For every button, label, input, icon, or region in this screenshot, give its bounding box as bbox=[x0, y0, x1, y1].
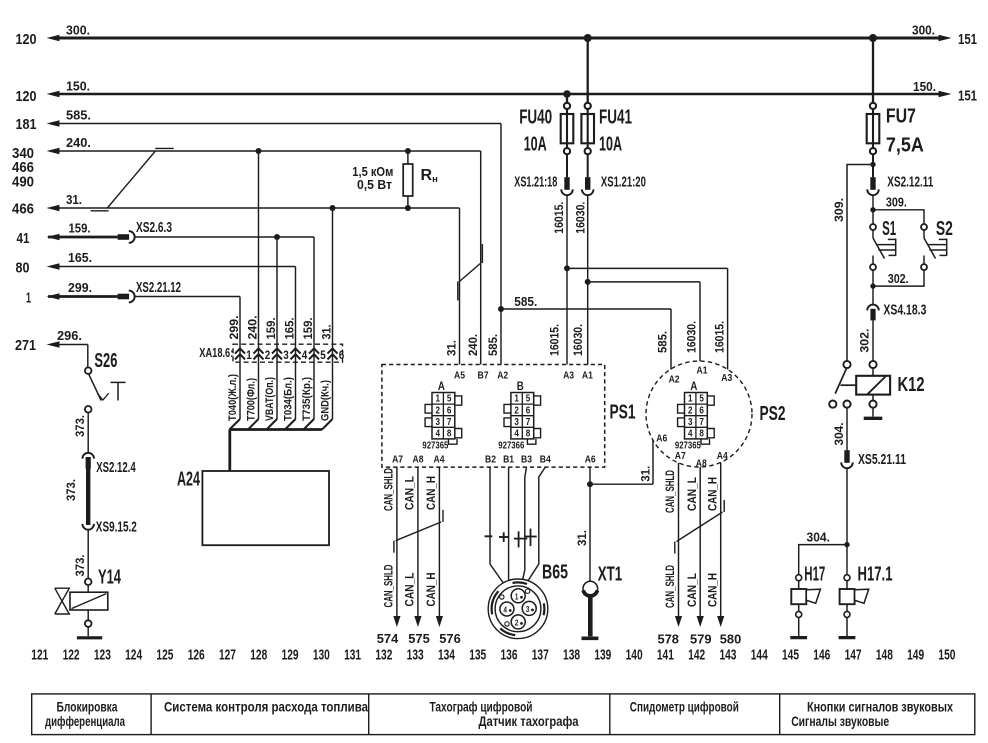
arrowhead right wire 150. bbox=[939, 91, 952, 98]
svg-text:GND(Кч.): GND(Кч.) bbox=[319, 380, 331, 421]
svg-text:927366: 927366 bbox=[498, 440, 524, 451]
svg-text:FU40: FU40 bbox=[519, 106, 552, 129]
connector XS1.21:20 symbol bbox=[585, 177, 590, 190]
connector XA18.6 pin 3 chevrons bbox=[272, 348, 282, 353]
svg-text:3: 3 bbox=[283, 348, 289, 362]
relay K12 coil box bbox=[856, 376, 890, 395]
switch S26 upper contact bbox=[85, 367, 92, 374]
sensor B65 pin 4 bbox=[500, 602, 514, 616]
svg-text:373.: 373. bbox=[73, 555, 87, 577]
svg-text:296.: 296. bbox=[57, 328, 82, 343]
svg-text:A6: A6 bbox=[585, 454, 596, 466]
svg-text:4: 4 bbox=[688, 429, 693, 440]
svg-text:121: 121 bbox=[31, 647, 48, 664]
svg-text:139: 139 bbox=[594, 647, 611, 664]
legend table divider 1 bbox=[150, 694, 152, 735]
terminal XT1 stem bbox=[588, 596, 593, 636]
wire 373. XS9.15.2 to Y14 bbox=[87, 530, 89, 579]
svg-text:240.: 240. bbox=[466, 334, 480, 356]
svg-text:6: 6 bbox=[339, 348, 345, 362]
connector XS4.18.3 symbol bbox=[867, 305, 879, 311]
wire FU7 drop from 300. bus bbox=[872, 38, 874, 103]
connector XS1.21:18 symbol bbox=[564, 177, 569, 190]
wire B4 from PS1 to B65 bbox=[527, 467, 546, 582]
svg-text:137: 137 bbox=[532, 647, 549, 664]
legend table divider 2 bbox=[368, 694, 370, 735]
svg-text:575: 575 bbox=[408, 631, 430, 646]
svg-text:159.: 159. bbox=[301, 318, 315, 340]
svg-text:A2: A2 bbox=[669, 374, 680, 386]
resistor Rн body bbox=[403, 164, 413, 196]
svg-text:16015.: 16015. bbox=[552, 202, 566, 234]
svg-text:5: 5 bbox=[699, 394, 704, 405]
svg-text:120: 120 bbox=[16, 88, 37, 105]
svg-text:CAN_SHLD: CAN_SHLD bbox=[381, 468, 395, 511]
connector XS2.12.11 symbol bbox=[870, 177, 875, 190]
svg-text:A: A bbox=[438, 381, 445, 393]
svg-text:373.: 373. bbox=[73, 415, 87, 437]
wire XA18.6 pin4 vertical (165.) bbox=[295, 267, 297, 420]
arrowhead left wire 165. bbox=[47, 263, 60, 270]
wire 165. horizontal bbox=[58, 266, 296, 268]
fuse FU40 terminal circles bbox=[564, 103, 570, 109]
svg-text:927365: 927365 bbox=[422, 440, 448, 451]
wire 304. relay to XS5.21.11 bbox=[846, 408, 848, 451]
wire 302. to relay K12 bbox=[872, 320, 874, 360]
wire 373. S26 to XS2.12.4 bbox=[87, 413, 89, 454]
arrowhead CAN_H (576) bbox=[436, 616, 443, 627]
connector XA18.6 pin 5 chevrons bbox=[309, 348, 319, 353]
horn H17 lower terminal bbox=[796, 611, 802, 617]
svg-text:300.: 300. bbox=[66, 23, 90, 38]
switch S1 blade bbox=[872, 230, 874, 238]
wire B1 (+) from PS1 to B65 bbox=[508, 467, 510, 583]
svg-text:150.: 150. bbox=[66, 79, 90, 94]
node 302. junction bbox=[870, 283, 875, 288]
shield pair symbol (B3/B4) bbox=[514, 538, 528, 540]
svg-text:300.: 300. bbox=[912, 23, 935, 38]
svg-text:150: 150 bbox=[938, 647, 955, 664]
svg-text:7: 7 bbox=[526, 417, 531, 428]
svg-text:A1: A1 bbox=[697, 365, 708, 377]
wire H17.1 to ground bbox=[846, 604, 848, 611]
switch S2 upper contact bbox=[921, 224, 927, 230]
svg-text:CAN_L: CAN_L bbox=[403, 476, 417, 510]
svg-text:2: 2 bbox=[515, 617, 519, 627]
wire 240. vertical drop to PS1 pin B7 bbox=[480, 151, 482, 365]
wire 299. horizontal bbox=[48, 295, 118, 298]
svg-text:A4: A4 bbox=[717, 450, 728, 462]
svg-text:574: 574 bbox=[377, 631, 399, 646]
svg-text:3: 3 bbox=[688, 417, 693, 428]
connector grid A bbox=[685, 393, 708, 439]
wire S1 lower to 302. junction bbox=[872, 270, 874, 286]
wire 150. main horizontal bus bbox=[58, 93, 940, 95]
svg-text:A8: A8 bbox=[413, 454, 424, 466]
svg-text:6: 6 bbox=[699, 405, 704, 416]
svg-text:Y14: Y14 bbox=[98, 566, 121, 589]
svg-text:B4: B4 bbox=[540, 454, 551, 466]
svg-text:136: 136 bbox=[501, 647, 518, 664]
legend table divider 3 bbox=[609, 694, 611, 735]
ground symbol Y14 bbox=[77, 636, 102, 639]
node branch to S2 bbox=[870, 207, 875, 212]
node resistor bottom on wire 31. bbox=[405, 205, 411, 211]
svg-text:2: 2 bbox=[265, 348, 271, 362]
svg-text:B2: B2 bbox=[485, 454, 496, 466]
svg-text:579: 579 bbox=[690, 632, 712, 647]
svg-text:145: 145 bbox=[782, 647, 799, 664]
svg-text:131: 131 bbox=[344, 647, 361, 664]
svg-text:Т735(Кр.): Т735(Кр.) bbox=[301, 377, 313, 421]
svg-text:Т034(Бл.): Т034(Бл.) bbox=[282, 377, 294, 421]
arrowhead left wire 300. bbox=[47, 35, 60, 42]
svg-text:XS1.21:18: XS1.21:18 bbox=[514, 175, 557, 191]
solenoid valve Y14 upper terminal bbox=[85, 579, 92, 586]
connector XS2.12.4 symbol bbox=[82, 453, 94, 459]
wire XA18.6 pin6 vertical (31.) bbox=[332, 208, 334, 419]
svg-text:16015.: 16015. bbox=[548, 324, 562, 356]
wire 31. from PS1 A6 down bbox=[589, 467, 591, 581]
svg-text:S26: S26 bbox=[94, 349, 117, 372]
svg-text:585.: 585. bbox=[514, 294, 537, 309]
ground symbol K12 bbox=[864, 417, 883, 420]
svg-text:A2: A2 bbox=[497, 370, 508, 382]
svg-text:5: 5 bbox=[447, 394, 452, 405]
node FU40 on wire 150. bbox=[563, 90, 571, 98]
device PS2 dashed circle bbox=[646, 361, 752, 467]
wire 31. horizontal bbox=[58, 207, 460, 209]
svg-text:XT1: XT1 bbox=[598, 563, 623, 586]
horn H17.1 lower terminal bbox=[844, 611, 850, 617]
switch S2 blade bbox=[923, 230, 925, 238]
arrowhead CAN_L (575) bbox=[414, 616, 421, 627]
svg-text:B3: B3 bbox=[521, 454, 532, 466]
svg-text:127: 127 bbox=[219, 647, 236, 664]
node resistor top on wire 240. bbox=[405, 148, 411, 154]
svg-text:240.: 240. bbox=[66, 135, 91, 150]
svg-text:CAN_SHLD: CAN_SHLD bbox=[663, 470, 677, 513]
svg-text:CAN_SHLD: CAN_SHLD bbox=[381, 564, 395, 607]
relay K12 lower contact terminals bbox=[829, 401, 836, 408]
wire from 240. line down through resistor to 31. line bbox=[407, 151, 409, 208]
label minus (B2) bbox=[485, 535, 493, 537]
svg-text:141: 141 bbox=[657, 647, 674, 664]
wire 16015. XS1.21:18 down to PS1 pin A3 bbox=[566, 195, 568, 364]
fuse FU41 terminal circles bbox=[585, 103, 591, 109]
svg-text:1: 1 bbox=[26, 289, 31, 306]
svg-text:16030.: 16030. bbox=[574, 202, 588, 234]
svg-text:148: 148 bbox=[876, 647, 893, 664]
solenoid valve Y14 lower terminal bbox=[85, 620, 92, 627]
wire 302. down to XS4.18.3 bbox=[872, 286, 874, 305]
svg-text:133: 133 bbox=[407, 647, 424, 664]
svg-text:2: 2 bbox=[688, 405, 693, 416]
svg-text:135: 135 bbox=[469, 647, 486, 664]
arrowhead CAN_H (580) bbox=[717, 616, 724, 627]
switch S2 lower contact bbox=[923, 256, 925, 265]
arrowhead left wire 240. bbox=[47, 148, 60, 155]
arrowhead left wire 150. bbox=[47, 91, 60, 98]
node pin2 junction on wire 240. bbox=[256, 148, 262, 154]
connector housing tabs B bbox=[504, 404, 511, 413]
svg-text:128: 128 bbox=[250, 647, 267, 664]
svg-text:3: 3 bbox=[435, 417, 440, 428]
svg-text:Система контроля расхода топли: Система контроля расхода топлива bbox=[164, 700, 368, 715]
connector grid B bbox=[511, 393, 534, 439]
svg-text:120: 120 bbox=[16, 31, 37, 48]
svg-text:10А: 10А bbox=[599, 133, 622, 156]
svg-text:H17.1: H17.1 bbox=[858, 563, 893, 586]
svg-text:4: 4 bbox=[514, 429, 519, 440]
svg-text:181: 181 bbox=[16, 116, 37, 133]
svg-text:4: 4 bbox=[504, 605, 508, 615]
svg-text:A3: A3 bbox=[721, 372, 732, 384]
svg-text:138: 138 bbox=[563, 647, 580, 664]
svg-text:132: 132 bbox=[375, 647, 392, 664]
svg-text:80: 80 bbox=[16, 260, 30, 277]
fuse FU7 terminal circles bbox=[870, 103, 876, 109]
svg-text:Блокировка: Блокировка bbox=[57, 700, 118, 715]
wire 304. down to horns bbox=[846, 468, 848, 574]
svg-text:146: 146 bbox=[813, 647, 830, 664]
svg-text:CAN_H: CAN_H bbox=[706, 573, 720, 607]
svg-text:130: 130 bbox=[313, 647, 330, 664]
switch S26 lower contact bbox=[85, 406, 92, 413]
svg-text:151: 151 bbox=[958, 31, 977, 48]
svg-text:125: 125 bbox=[156, 647, 173, 664]
connector XS2.6.3 symbol bbox=[118, 234, 130, 240]
node 304. branch to H17 bbox=[844, 542, 849, 547]
svg-text:7: 7 bbox=[699, 417, 704, 428]
svg-text:ХА18.6:: ХА18.6: bbox=[199, 346, 233, 360]
svg-text:CAN_H: CAN_H bbox=[424, 476, 438, 510]
arrowhead CAN_L (579) bbox=[697, 616, 704, 627]
svg-text:122: 122 bbox=[63, 647, 80, 664]
svg-text:A8: A8 bbox=[696, 458, 707, 470]
svg-text:165.: 165. bbox=[68, 250, 92, 265]
svg-text:299.: 299. bbox=[227, 316, 241, 340]
svg-text:A3: A3 bbox=[563, 370, 574, 382]
wire 296. horizontal to S26 bbox=[58, 344, 88, 346]
svg-text:A: A bbox=[690, 381, 697, 393]
svg-text:3: 3 bbox=[514, 417, 519, 428]
svg-text:VBAT(Оп.): VBAT(Оп.) bbox=[264, 377, 276, 421]
svg-text:A4: A4 bbox=[434, 454, 445, 466]
svg-text:Спидометр цифровой: Спидометр цифровой bbox=[630, 700, 739, 715]
wire CAN_H from PS1 A4 bbox=[438, 467, 440, 616]
svg-text:B7: B7 bbox=[478, 370, 489, 382]
svg-text:585.: 585. bbox=[66, 108, 91, 123]
thick bus wire to A24 bbox=[230, 428, 323, 431]
svg-text:XS2.12.4: XS2.12.4 bbox=[96, 460, 136, 476]
svg-text:147: 147 bbox=[845, 647, 862, 664]
svg-text:Кнопки сигналов звуковых: Кнопки сигналов звуковых bbox=[807, 700, 953, 715]
wire CAN_SHLD from PS2 A7 bbox=[678, 463, 680, 617]
relay K12 contact blade bbox=[835, 368, 846, 393]
wire Y14 terminal to coil bbox=[87, 585, 89, 592]
svg-text:1: 1 bbox=[514, 394, 519, 405]
sensor B65 pin 2 bbox=[511, 615, 525, 629]
svg-text:126: 126 bbox=[188, 647, 205, 664]
svg-text:240.: 240. bbox=[245, 316, 259, 340]
node FU41 on wire 300. bbox=[584, 34, 592, 42]
svg-text:143: 143 bbox=[719, 647, 736, 664]
svg-text:16030.: 16030. bbox=[685, 321, 699, 353]
arrowhead left wire 159. bbox=[47, 234, 60, 241]
switch S2 button actuator bbox=[946, 239, 948, 256]
connector housing tabs A bbox=[678, 404, 685, 413]
svg-text:FU7: FU7 bbox=[886, 105, 916, 128]
svg-text:XS9.15.2: XS9.15.2 bbox=[96, 520, 137, 536]
svg-text:466: 466 bbox=[12, 201, 34, 218]
fuse FU41 body bbox=[587, 109, 589, 148]
svg-text:41: 41 bbox=[17, 230, 30, 247]
svg-text:578: 578 bbox=[657, 632, 679, 647]
svg-text:6: 6 bbox=[447, 405, 452, 416]
svg-text:373.: 373. bbox=[64, 479, 78, 501]
svg-text:31.: 31. bbox=[445, 340, 459, 356]
device A24 box bbox=[202, 471, 329, 545]
svg-text:1: 1 bbox=[246, 348, 252, 362]
svg-text:XS2.6.3: XS2.6.3 bbox=[136, 220, 172, 236]
svg-text:Т040(Ж.л.): Т040(Ж.л.) bbox=[227, 374, 239, 421]
wire 585. vertical drop to PS1 pin A2 bbox=[500, 124, 502, 365]
svg-text:4: 4 bbox=[302, 348, 308, 362]
svg-text:159.: 159. bbox=[69, 221, 91, 236]
svg-text:B1: B1 bbox=[503, 454, 514, 466]
node branch 309. below FU7 bbox=[870, 162, 875, 167]
svg-text:149: 149 bbox=[907, 647, 924, 664]
svg-text:Сигналы звуковые: Сигналы звуковые bbox=[791, 714, 889, 729]
svg-text:1: 1 bbox=[688, 394, 693, 405]
svg-text:CAN_H: CAN_H bbox=[706, 477, 720, 511]
terminal XT1 symbol bbox=[583, 581, 598, 596]
arrowhead CAN_SHLD (574) bbox=[393, 616, 400, 627]
wire from 296. down to S26 bbox=[87, 345, 89, 368]
svg-text:Т700(Фл.): Т700(Фл.) bbox=[245, 378, 257, 421]
relay K12 coil lower terminal bbox=[869, 401, 876, 408]
wire CAN_L from PS1 A8 bbox=[417, 467, 419, 616]
switch S26 blade bbox=[89, 374, 101, 400]
svg-text:5: 5 bbox=[526, 394, 531, 405]
svg-text:585.: 585. bbox=[486, 334, 500, 356]
svg-text:490: 490 bbox=[12, 174, 34, 191]
horn H17 body bbox=[798, 581, 800, 589]
svg-text:2: 2 bbox=[514, 405, 519, 416]
svg-text:CAN_SHLD: CAN_SHLD bbox=[663, 565, 677, 608]
switch S26 actuator T and link bbox=[97, 393, 108, 400]
wire 16015. branch horizontal to PS2 pin A3 bbox=[567, 267, 728, 269]
connector XA18.6 dashed outline bbox=[233, 344, 343, 362]
svg-text:5: 5 bbox=[320, 348, 326, 362]
svg-text:150.: 150. bbox=[913, 79, 936, 94]
relay K12 coil terminal (302.) bbox=[869, 361, 876, 368]
wire 16030. branch horizontal to PS2 pin A1 bbox=[588, 281, 700, 283]
wire FU41 drop from 300. bus bbox=[587, 38, 589, 103]
arrowhead left wire 585. bbox=[47, 120, 60, 127]
solenoid Y14 coil box with diagonal bbox=[70, 592, 108, 610]
wire Y14 to ground bbox=[87, 610, 89, 620]
wire FU7 to XS2.12.11 bbox=[872, 154, 874, 177]
svg-text:31.: 31. bbox=[319, 325, 333, 340]
fuse FU7 body bbox=[872, 109, 874, 148]
device PS1 dashed box bbox=[382, 365, 605, 468]
harness diagonals into A24 bus bbox=[230, 419, 241, 430]
sensor B65 keying segments bbox=[513, 582, 528, 584]
svg-text:XS5.21.11: XS5.21.11 bbox=[858, 452, 906, 468]
svg-text:10А: 10А bbox=[524, 133, 547, 156]
svg-text:H17: H17 bbox=[804, 563, 825, 586]
wire FU40 drop from 150. bus bbox=[566, 94, 568, 103]
svg-text:124: 124 bbox=[125, 647, 142, 664]
node pin3 junction on wire 159. bbox=[274, 234, 280, 240]
wire K12 coil to ground bbox=[872, 408, 874, 417]
wire coil top connection bbox=[872, 368, 874, 376]
wire 31. vertical drop to PS1 pin A5 bbox=[459, 208, 461, 365]
node FU7 on wire 300. bbox=[869, 34, 877, 42]
legend table divider 4 bbox=[779, 694, 781, 735]
wire XA18.6 pin1 vertical (299.) bbox=[239, 297, 241, 420]
switch S1 button actuator bbox=[895, 239, 897, 256]
wire 16030. XS1.21:20 down to PS1 pin A1 bbox=[587, 195, 589, 364]
wire CAN_L from PS2 A8 bbox=[699, 467, 701, 616]
svg-text:A7: A7 bbox=[675, 450, 686, 462]
svg-text:309.: 309. bbox=[886, 195, 907, 210]
horn H17.1 body bbox=[846, 581, 848, 589]
wire XA18.6 pin3 vertical (159.) bbox=[276, 237, 278, 419]
svg-text:PS2: PS2 bbox=[760, 402, 786, 425]
svg-text:Датчик тахографа: Датчик тахографа bbox=[479, 714, 579, 729]
connector XS2.21.12 symbol bbox=[118, 294, 130, 300]
svg-text:8: 8 bbox=[447, 429, 452, 440]
svg-text:7,5А: 7,5А bbox=[886, 134, 924, 157]
svg-text:576: 576 bbox=[439, 631, 461, 646]
svg-text:580: 580 bbox=[720, 632, 742, 647]
arrowhead right wire 300. bbox=[939, 35, 952, 42]
ground symbol H17 bbox=[790, 636, 807, 639]
arrowhead left wire 299. bbox=[47, 293, 60, 300]
connector XS9.15.2 symbol bbox=[82, 524, 94, 530]
wire 309. branch to relay contact bbox=[847, 165, 873, 361]
sensor B65 outer ring bbox=[488, 579, 548, 639]
switch S1 upper contact bbox=[870, 224, 876, 230]
arrowhead CAN_SHLD (578) bbox=[675, 616, 682, 627]
svg-text:PS1: PS1 bbox=[610, 401, 636, 424]
harness slash on wires 240./31. left bbox=[107, 151, 155, 208]
svg-text:S1: S1 bbox=[882, 217, 896, 240]
svg-text:151: 151 bbox=[958, 88, 977, 105]
label plus (B1) bbox=[499, 536, 508, 538]
harness slash on wires 31./240. above PS1 bbox=[460, 263, 481, 281]
wire FU40 to XS1.21:18 bbox=[566, 154, 568, 177]
wire CAN_SHLD from PS1 A7 bbox=[396, 467, 398, 616]
svg-text:271: 271 bbox=[15, 337, 36, 354]
svg-text:4: 4 bbox=[435, 429, 440, 440]
svg-text:CAN_L: CAN_L bbox=[403, 573, 417, 607]
wire 300. main horizontal bus bbox=[58, 37, 940, 40]
svg-text:A6: A6 bbox=[656, 433, 667, 445]
svg-text:CAN_L: CAN_L bbox=[685, 477, 699, 511]
wire branch to S2 bbox=[873, 210, 924, 224]
svg-text:302.: 302. bbox=[857, 329, 871, 353]
svg-text:CAN_H: CAN_H bbox=[424, 573, 438, 607]
svg-text:16015.: 16015. bbox=[712, 321, 726, 353]
svg-text:1: 1 bbox=[435, 394, 440, 405]
svg-text:FU41: FU41 bbox=[599, 106, 632, 129]
wire FU41 to XS1.21:20 bbox=[587, 154, 589, 177]
node 585. branch to PS2 bbox=[498, 306, 504, 312]
